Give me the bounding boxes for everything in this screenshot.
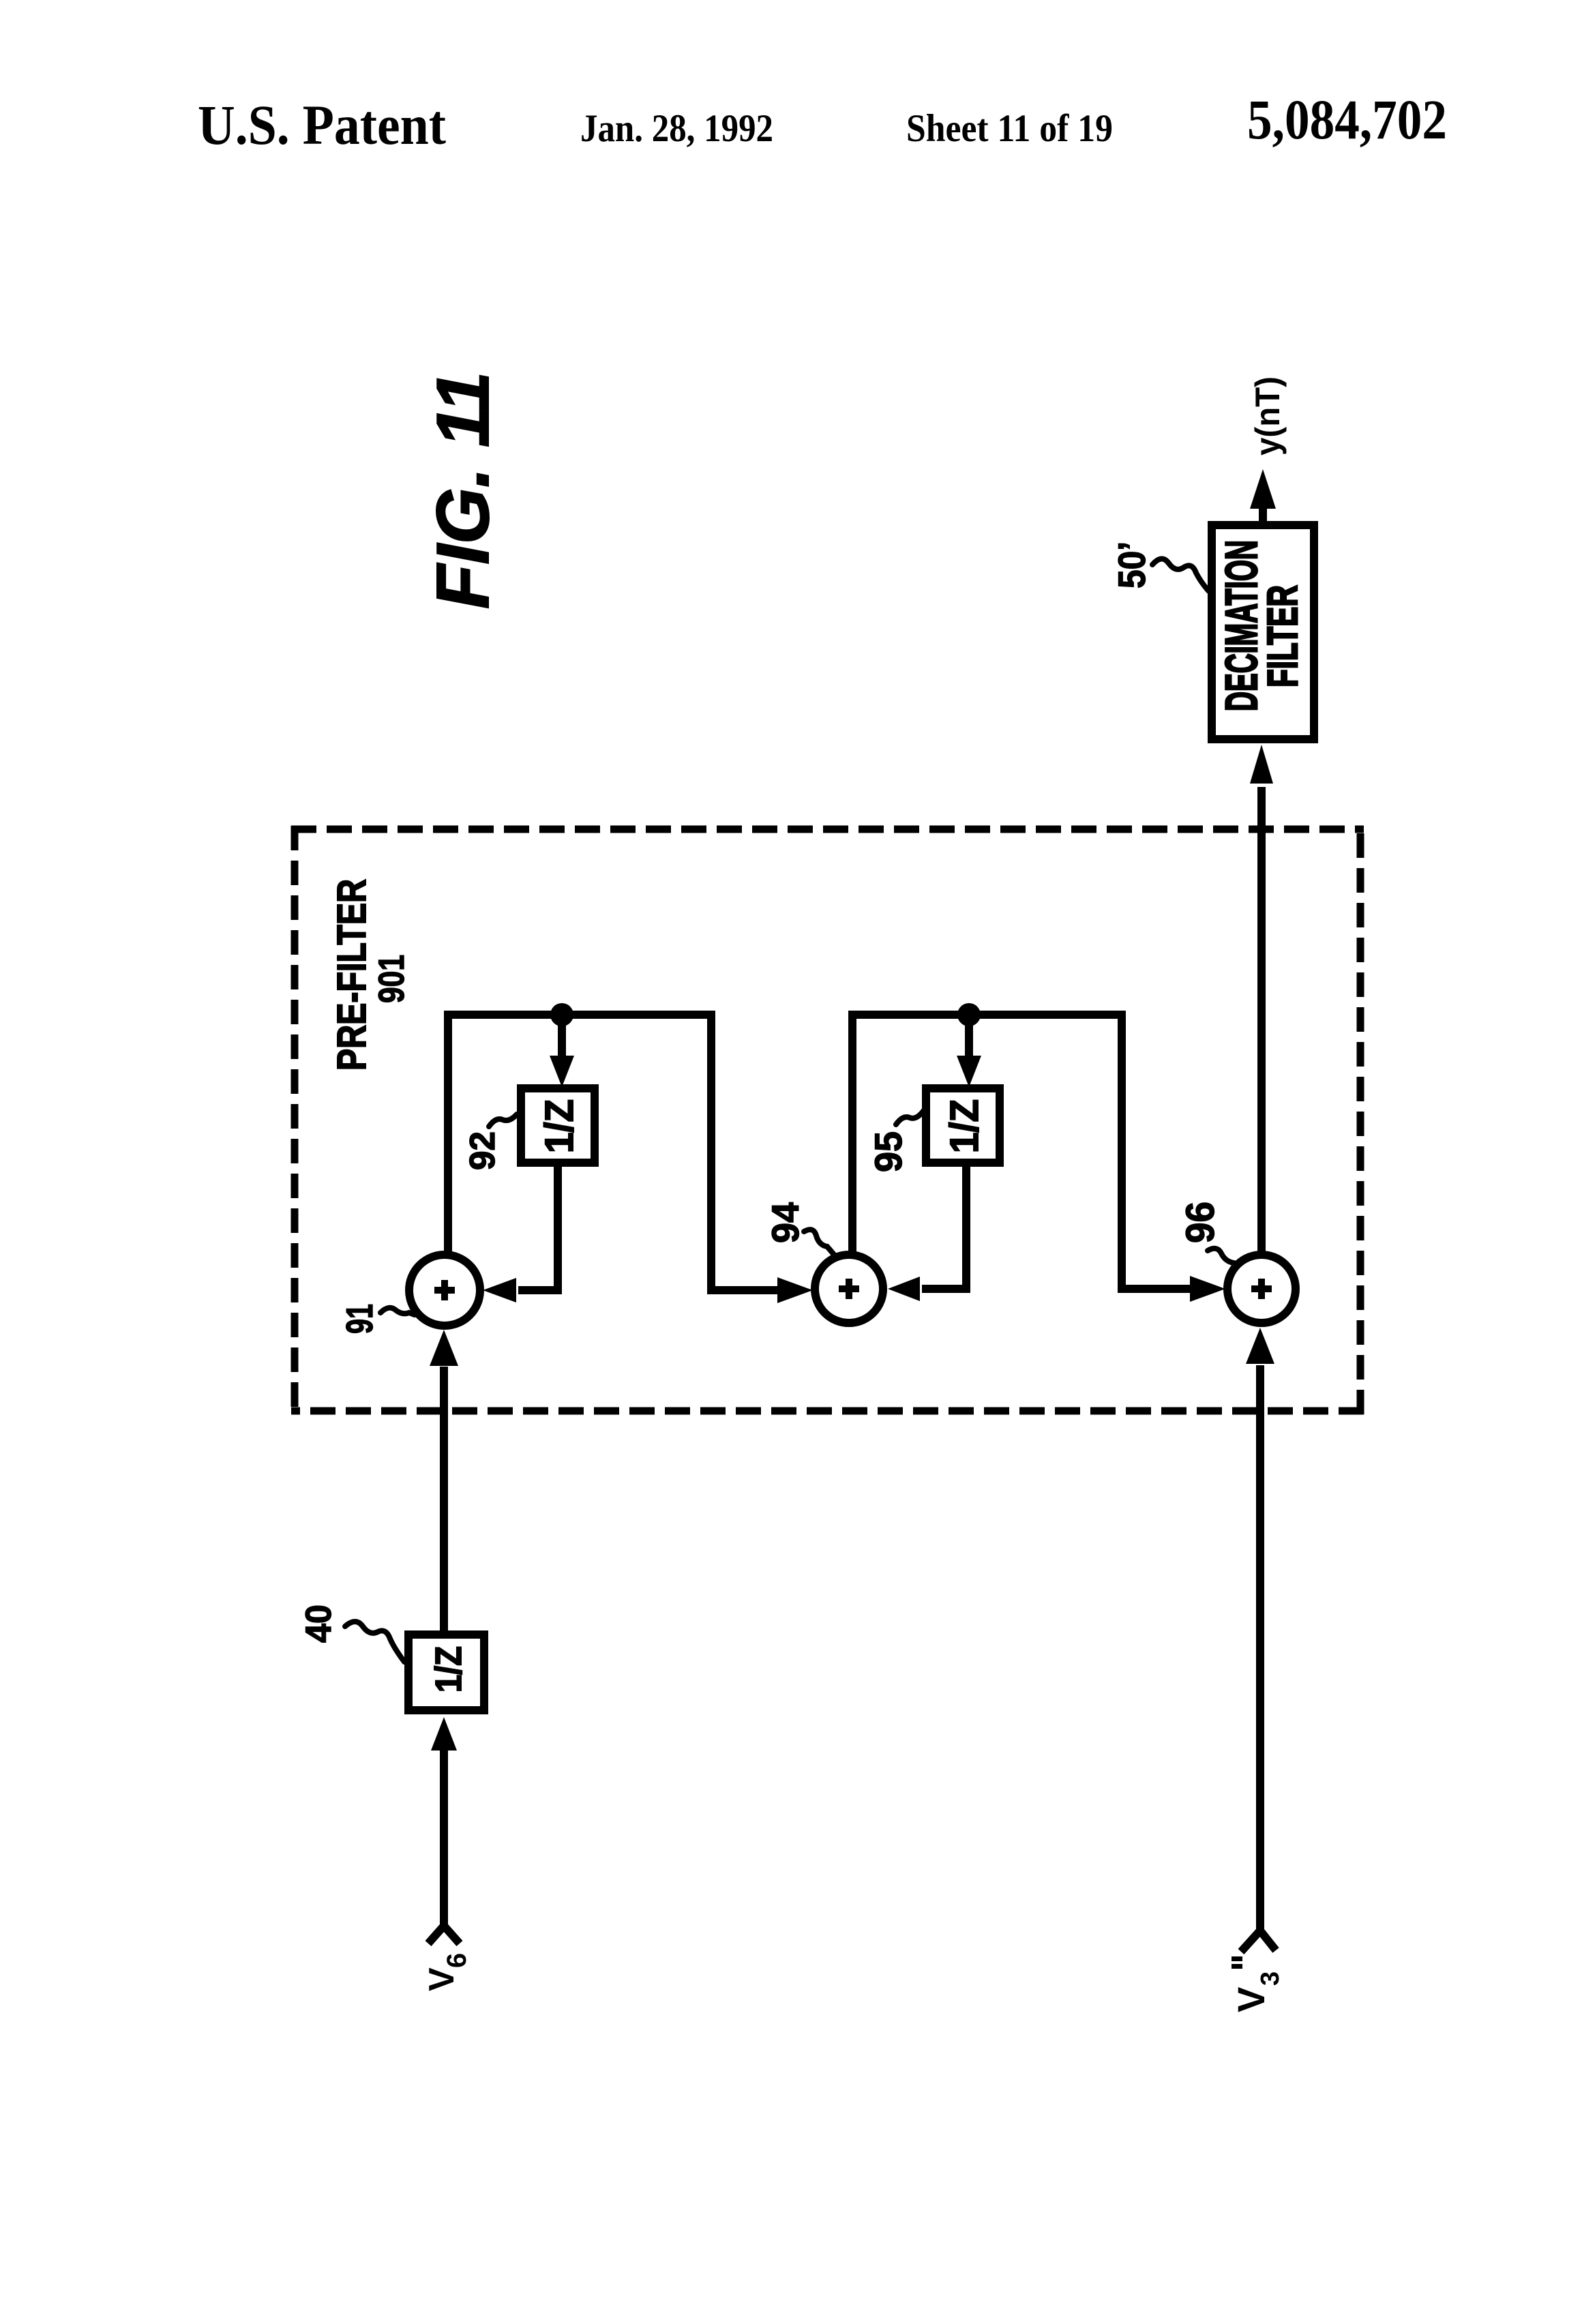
svg-text:95: 95 [867, 1131, 910, 1172]
svg-text:5,084,702: 5,084,702 [1247, 88, 1447, 151]
svg-text:901: 901 [372, 955, 412, 1003]
svg-text:U.S. Patent: U.S. Patent [198, 93, 446, 156]
svg-text:V: V [1229, 1987, 1272, 2012]
svg-text:y(nT): y(nT) [1249, 376, 1287, 456]
svg-text:3: 3 [1256, 1971, 1285, 1986]
svg-text:V: V [422, 1967, 462, 1991]
svg-text:92: 92 [463, 1131, 503, 1170]
svg-text:Sheet 11 of 19: Sheet 11 of 19 [906, 107, 1113, 150]
svg-text:DECIMATION: DECIMATION [1216, 540, 1266, 711]
svg-text:94: 94 [764, 1202, 807, 1243]
svg-text:FILTER: FILTER [1259, 585, 1307, 687]
svg-text:6: 6 [442, 1953, 472, 1968]
svg-text:91: 91 [338, 1304, 380, 1334]
svg-text:1/Z: 1/Z [942, 1099, 987, 1153]
svg-text:FIG. 11: FIG. 11 [421, 372, 505, 609]
svg-text:1/Z: 1/Z [428, 1646, 469, 1693]
svg-text:96: 96 [1178, 1202, 1223, 1243]
svg-text:1/Z: 1/Z [537, 1099, 582, 1153]
svg-text:40: 40 [299, 1605, 339, 1643]
svg-text:PRE-FILTER: PRE-FILTER [329, 879, 374, 1071]
svg-text:Jan. 28, 1992: Jan. 28, 1992 [580, 107, 773, 150]
svg-text:50’: 50’ [1110, 541, 1153, 589]
